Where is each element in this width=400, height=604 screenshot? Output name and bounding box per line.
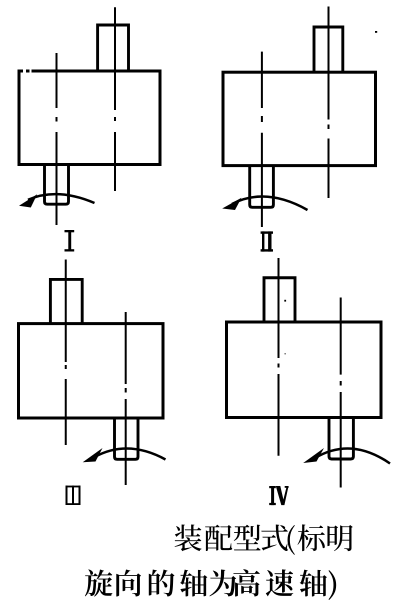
caption line2 char 轴 [180, 570, 207, 597]
centerline of top shaft III [65, 260, 67, 446]
centerline of top shaft II [328, 7, 330, 199]
centerline of top shaft I [114, 7, 116, 191]
rotation arrow II [222, 197, 307, 210]
centerline of low-speed shaft III [125, 312, 127, 485]
caption line2 char 向 [116, 570, 141, 597]
label II [261, 231, 273, 251]
top shaft stub I [98, 25, 129, 71]
centerline of low-speed shaft II [261, 52, 263, 227]
caption line1 char 装 [175, 524, 202, 551]
caption line1 char 明 [327, 525, 352, 551]
centerline of top shaft IV [278, 258, 280, 456]
bottom shaft stub II [250, 166, 274, 208]
caption line2 char 速 [266, 569, 293, 596]
caption line1 char 配 [205, 525, 232, 551]
label IV [269, 486, 288, 505]
top shaft stub IV [264, 278, 295, 322]
caption line1 char ( [288, 525, 295, 555]
centerline of low-speed shaft IV [340, 298, 342, 488]
caption line1 char 标 [298, 524, 325, 551]
label I [65, 230, 75, 252]
housing I top edge scan gaps [23, 69, 26, 73]
gearbox housing I [19, 71, 160, 165]
caption line2 char 旋 [85, 569, 113, 596]
caption line2 char 的 [149, 570, 175, 597]
scan speck near top right [375, 31, 377, 33]
rotation arrow IV [303, 448, 390, 464]
label III [66, 486, 81, 505]
faint scan speck lower housing IV [285, 353, 286, 354]
rotation arrow III [83, 448, 166, 462]
caption line2 char 高 [233, 569, 260, 596]
gearbox housing III [19, 324, 164, 418]
bottom shaft stub IV [329, 418, 353, 460]
top shaft stub II [314, 27, 343, 72]
rotation arrow I [19, 194, 95, 207]
caption line2 char ) [329, 570, 337, 600]
caption line2 char 为 [209, 570, 236, 597]
bottom shaft stub I [45, 165, 69, 205]
gearbox housing IV [227, 322, 382, 418]
caption line1 char 式 [261, 525, 288, 551]
caption line1 char 型 [234, 525, 261, 551]
bottom shaft stub III [115, 418, 139, 459]
scan speck inside housing IV [284, 300, 286, 302]
caption line2 char 轴 [300, 570, 327, 597]
gearbox housing II [223, 72, 376, 165]
centerline of low-speed shaft I [56, 53, 58, 225]
top shaft stub III [50, 279, 82, 323]
